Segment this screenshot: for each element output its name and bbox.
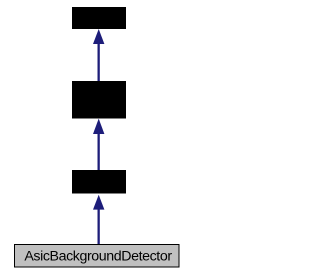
node box (top ancestor, level 1) <box>72 7 126 29</box>
node AsicBackgroundDetector (current class) <box>15 245 180 268</box>
arrow from AsicBackgroundDetector to level-3 box <box>93 195 104 244</box>
inheritance diagram <box>0 0 197 276</box>
svg-text:AsicBackgroundDetector: AsicBackgroundDetector <box>24 249 172 265</box>
arrow from level-3 box to level-2 box <box>93 119 104 170</box>
node box (level 3) <box>72 170 126 194</box>
node box (level 2, two-line label) <box>72 81 126 119</box>
arrow from level-2 box to top box <box>93 29 104 82</box>
